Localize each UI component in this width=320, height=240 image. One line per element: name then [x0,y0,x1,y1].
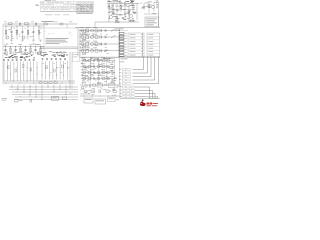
IC box [95,99,106,104]
transistor Q [84,90,87,93]
wire [116,4,118,23]
resistor [86,43,89,46]
resistor [102,65,105,68]
capacitor [143,6,146,8]
fuse F1 [9,23,13,25]
diode [44,82,47,84]
arrow [111,36,115,39]
wire [120,4,122,13]
arrow [111,29,115,32]
left-bottom logic section [3,51,75,83]
wire [135,96,158,98]
resistor [102,71,105,74]
capacitor [33,59,35,61]
parts table dense block [77,4,93,14]
capacitor [112,60,114,62]
resistor [83,39,86,41]
capacitor [93,65,95,68]
wire [81,78,116,80]
wire [53,85,55,93]
diode [54,82,57,84]
bus wire [9,86,78,88]
wire [20,62,22,82]
pin [119,55,124,57]
resistor [113,91,117,93]
relay section [70,52,80,89]
transistor Q [97,71,100,74]
left filter section [4,26,45,42]
wire component [25,47,27,54]
wire [150,57,152,77]
wire [66,24,68,28]
wire [158,57,160,84]
connector CN2 pin ladder [115,29,129,57]
capacitor [60,23,63,25]
fan-out harness [119,57,160,99]
wire [94,22,96,28]
capacitor [93,59,95,62]
resistor [108,5,110,8]
note text block [40,28,78,56]
wire component [38,26,40,40]
red watermark logo [140,97,158,107]
diode row [5,52,8,55]
capacitor [29,59,31,61]
resistor [116,21,120,23]
bus wire [71,52,73,89]
transistor Q [83,65,86,68]
wire [36,62,38,82]
connector pin [123,96,126,98]
wire [124,4,126,19]
wire [79,36,120,38]
wire [114,58,116,85]
signal channel rows [79,27,120,56]
transistor Q [81,49,84,52]
resistor [148,5,150,8]
wire [40,46,78,48]
wire [11,85,13,88]
bus wire [4,80,76,82]
resistor [83,53,86,55]
wire [65,85,67,95]
wire [41,61,43,80]
wire [48,61,50,80]
wire [158,1,160,27]
terminal strip TB1 [128,33,144,57]
wire [6,62,8,82]
diode [39,82,42,84]
section divider wire [43,26,45,56]
inductor L1 [25,23,29,25]
capacitor [112,11,115,13]
wire [66,61,68,80]
connector pin [123,93,126,95]
capacitor [51,58,53,61]
wire [111,14,123,16]
transistor Q [83,77,86,80]
wire [143,3,145,11]
diode [107,60,109,62]
wire [52,61,54,80]
transistor Q1 [6,36,9,39]
power amp bottom row [80,82,120,104]
table header note [45,0,52,2]
resistor [86,49,89,52]
capacitor C31 [29,99,31,103]
wire [23,62,25,82]
wire [81,72,116,74]
wire [79,30,120,32]
bus wire [4,82,76,84]
resistor [8,66,10,69]
capacitor [24,59,26,61]
connector pin [123,86,126,88]
capacitor [93,77,95,80]
transistor Q [115,18,118,21]
resistor [15,69,17,72]
transistor Q [85,85,88,88]
resistor [88,65,91,68]
capacitor [99,36,101,39]
bus wire [109,9,135,11]
capacitor [112,72,114,74]
terminal strip TB2 [147,33,160,57]
wire [41,85,43,100]
resistor [88,77,91,80]
capacitor [60,58,62,61]
bus wire [69,52,71,89]
wire [142,33,144,57]
wire [80,95,120,97]
capacitor [112,66,114,68]
diode [107,72,109,74]
resistor [128,11,130,14]
wire component [10,47,12,54]
wire [3,62,5,82]
resistor [95,43,98,46]
resistor [62,65,64,68]
ground [10,39,13,41]
capacitor [46,58,48,61]
capacitor [104,50,106,53]
wire [56,61,58,80]
parts list table [41,2,94,12]
resistor [91,90,95,93]
transistor Q [152,6,155,9]
capacitor [104,43,106,46]
resistor [86,36,89,39]
wire [112,4,114,16]
wire [108,4,110,23]
wire [63,61,65,80]
wire [13,62,15,82]
wire [135,89,152,91]
transistor Q [81,36,84,39]
resistor [88,71,91,74]
bus wire [12,91,78,93]
diode [49,82,52,84]
capacitor CX [19,23,21,26]
wire [29,85,31,95]
wire [90,58,92,85]
resistor [120,6,122,9]
IC U3 box [145,17,159,27]
wire component [30,47,32,54]
wire [136,4,138,21]
wire [40,27,78,29]
transistor Q [110,16,113,19]
diode D21 [15,100,19,103]
wire [81,66,116,68]
resistor [93,84,96,86]
resistor [83,46,86,48]
bus wire [75,27,160,29]
wire [132,4,134,15]
wire [82,58,84,85]
capacitor [104,29,106,32]
pin marks [156,0,158,2]
capacitor [99,29,101,32]
capacitor [16,59,18,61]
audio output section [80,58,120,85]
bus wire [9,89,78,91]
wire component [20,47,22,54]
wire component [27,26,29,40]
pin [119,46,124,48]
wire [81,60,116,62]
bus wire [15,96,78,98]
wire [33,62,35,82]
transistor Q2 [22,36,25,39]
wire [119,58,121,85]
transistor Q [91,49,94,52]
AC input row [3,21,78,85]
resistor [102,77,105,80]
resistor [83,33,86,35]
wire [146,57,148,73]
wire [143,57,145,70]
pin [119,44,124,46]
left border wire [2,24,4,85]
wire [80,93,90,95]
wire [79,43,120,45]
connector pin [122,76,126,78]
wire component [15,47,17,54]
diode [106,90,109,92]
box [108,98,116,102]
relay K1 box [73,53,80,62]
label block [2,97,8,100]
wire [148,2,150,13]
wire [135,86,150,88]
wire [59,85,61,90]
wire [119,29,121,57]
transistor Q [83,71,86,74]
capacitor [42,58,44,61]
wire [79,50,120,52]
resistor [30,68,32,71]
resistor [95,29,98,32]
pin [119,49,124,51]
capacitor [99,49,101,52]
connector pin [123,89,126,91]
bus wire [12,94,78,96]
resistor [95,36,98,39]
diagonal [116,85,119,88]
diode [107,66,109,68]
wire [77,28,79,56]
table footnote [45,14,53,17]
wire [59,61,61,80]
wire [29,62,31,82]
wire [23,85,25,93]
transistor Q [91,36,94,39]
resistor hatch [104,84,106,86]
capacitor [104,36,106,39]
capacitor [35,23,37,26]
wire [47,85,49,88]
wire component [35,47,37,54]
transistor Q [91,29,94,32]
wire [144,13,159,15]
capacitor [7,59,9,61]
capacitor [64,58,66,61]
wire [128,4,130,23]
wire [119,84,121,99]
connector pin [122,72,126,74]
top-right circuit block [75,0,160,27]
capacitor [63,97,67,100]
connector pin [122,69,126,71]
wire [135,93,155,95]
top-left tick marks [36,4,39,7]
transistor Q [83,59,86,62]
resistor [88,59,91,62]
wire component [11,26,13,40]
transistor Q [81,43,84,46]
pin [119,38,124,40]
wire [16,62,18,82]
transistor Q [97,77,100,80]
wire [45,61,47,80]
wire [26,62,28,82]
box [97,84,103,88]
logo glyph [140,101,146,106]
wire bus [4,46,45,48]
resistor [95,49,98,52]
wire component [16,26,18,40]
pin [119,41,124,43]
capacitor [3,59,5,61]
wire component [5,47,7,54]
wire [115,5,127,7]
wire [80,84,120,86]
transistor Q [97,65,100,68]
wire component [22,26,24,40]
resistor [102,59,105,62]
capacitor [55,58,57,61]
capacitor [98,90,100,94]
bus wire [120,98,160,100]
resistor [46,66,48,69]
transistor Q [81,86,84,89]
wire component [5,26,7,40]
box [109,84,116,88]
connector pin [122,83,126,85]
capacitor [99,43,101,46]
transformer T1 box [52,97,59,101]
wire [106,58,108,85]
transistor Q [81,29,84,32]
capacitor [12,59,14,61]
logo text [147,103,150,105]
capacitor [124,12,127,14]
transistor Q [97,59,100,62]
bus wire [107,3,139,5]
wire component [40,47,42,54]
wire [79,29,81,57]
resistor [86,29,89,32]
resistor [54,69,56,72]
pin [119,33,124,35]
wire [35,85,37,98]
bus wire [15,99,78,101]
pin [119,35,124,37]
capacitor [112,78,114,80]
diode [107,78,109,80]
fuse [44,23,47,25]
capacitor [20,59,22,61]
wire [154,57,156,80]
pin [119,52,124,54]
wire component [33,26,35,40]
transistor Q [130,15,133,18]
wire [95,21,139,23]
main bus wire [118,56,160,58]
wire [153,3,155,12]
wire [17,85,19,90]
capacitor [93,71,95,74]
bottom bus lines [2,85,79,103]
transistor Q [91,43,94,46]
connector pin [122,79,126,81]
IC box [84,98,93,103]
resistor [23,65,25,68]
capacitor [89,85,91,88]
wire [98,58,100,85]
left regulator section [4,43,45,55]
wire [10,62,12,82]
wire [40,48,78,50]
resistor [130,20,134,22]
